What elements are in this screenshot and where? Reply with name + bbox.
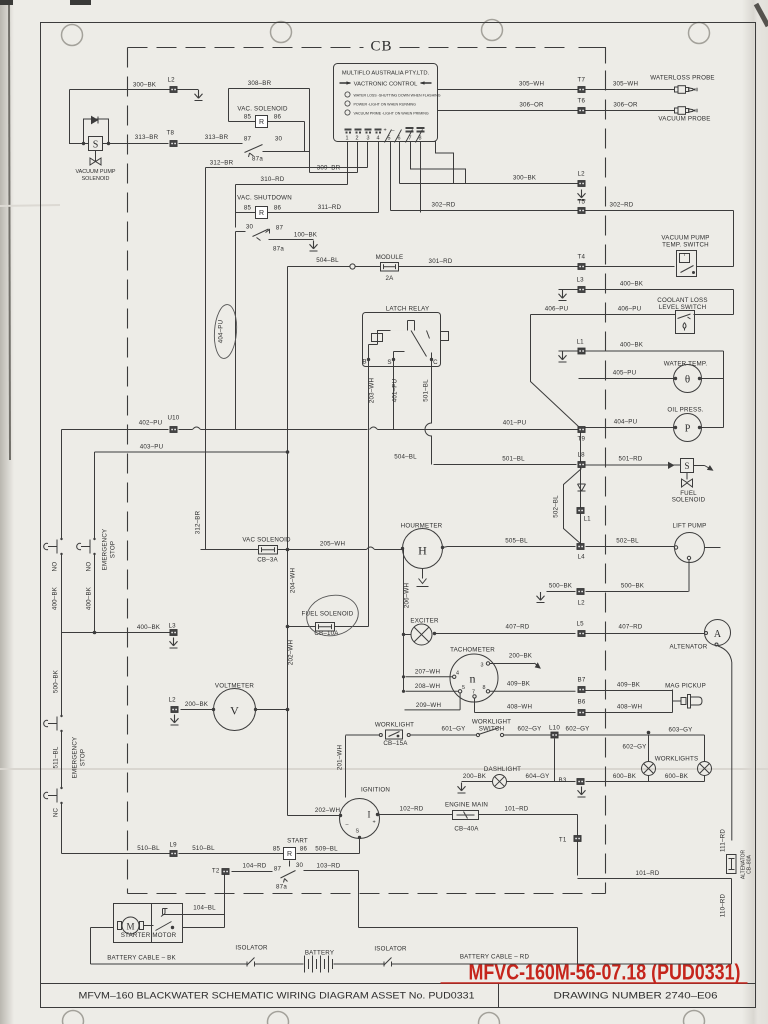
svg-text:1: 1: [346, 136, 349, 142]
svg-text:VACUUM PUMP: VACUUM PUMP: [661, 235, 709, 242]
svg-text:100–BK: 100–BK: [294, 232, 318, 239]
svg-text:T2: T2: [212, 868, 220, 875]
svg-text:EXCITER: EXCITER: [410, 618, 439, 625]
svg-text:206–WH: 206–WH: [404, 583, 411, 608]
svg-text:VOLTMETER: VOLTMETER: [215, 683, 254, 690]
svg-text:CB–80A: CB–80A: [747, 855, 753, 874]
svg-text:205–WH: 205–WH: [320, 541, 345, 548]
svg-text:505–BL: 505–BL: [505, 538, 528, 545]
svg-text:313–BR: 313–BR: [135, 134, 159, 141]
svg-text:WORKLIGHTS: WORKLIGHTS: [655, 756, 699, 763]
svg-text:T5: T5: [578, 199, 586, 206]
svg-text:VAC. SHUTDOWN: VAC. SHUTDOWN: [237, 195, 292, 202]
svg-text:207–WH: 207–WH: [415, 669, 440, 676]
svg-text:407–RD: 407–RD: [506, 624, 530, 631]
svg-text:406–PU: 406–PU: [545, 306, 569, 313]
svg-text:87: 87: [274, 866, 282, 873]
svg-text:86: 86: [274, 205, 282, 212]
svg-text:401–PU: 401–PU: [392, 379, 399, 403]
svg-text:θ: θ: [685, 374, 690, 386]
svg-text:B3: B3: [559, 777, 567, 784]
svg-text:A: A: [714, 629, 722, 640]
svg-text:85: 85: [273, 846, 281, 853]
svg-text:POWER -LIGHT ON WHEN RUNNING: POWER -LIGHT ON WHEN RUNNING: [354, 103, 417, 107]
svg-text:306–OR: 306–OR: [613, 102, 638, 109]
svg-text:S: S: [684, 461, 689, 471]
svg-text:L3: L3: [169, 623, 177, 630]
svg-text:L1: L1: [584, 516, 592, 523]
svg-text:TEMP. SWITCH: TEMP. SWITCH: [662, 242, 709, 249]
svg-text:600–BK: 600–BK: [613, 773, 637, 780]
svg-text:401–PU: 401–PU: [503, 420, 527, 427]
svg-text:ISOLATOR: ISOLATOR: [374, 946, 407, 953]
svg-text:CB–3A: CB–3A: [257, 557, 278, 564]
svg-text:C: C: [433, 359, 438, 366]
svg-text:407–RD: 407–RD: [619, 624, 643, 631]
svg-text:3: 3: [481, 663, 484, 669]
svg-text:+: +: [384, 128, 387, 134]
svg-text:500–BK: 500–BK: [53, 669, 60, 693]
svg-text:STOP: STOP: [80, 749, 87, 767]
svg-text:102–RD: 102–RD: [400, 806, 424, 813]
svg-text:501–RD: 501–RD: [619, 456, 643, 463]
svg-text:405–PU: 405–PU: [613, 370, 637, 377]
svg-text:I: I: [368, 810, 371, 820]
svg-text:308–BR: 308–BR: [248, 80, 272, 87]
svg-text:204–WH: 204–WH: [290, 568, 297, 593]
svg-text:MAG PICKUP: MAG PICKUP: [665, 683, 706, 690]
svg-text:305–WH: 305–WH: [613, 81, 638, 88]
svg-text:500–BK: 500–BK: [621, 583, 645, 590]
svg-text:P: P: [685, 424, 691, 435]
svg-text:VACUUM PRIME -LIGHT ON WHEN PR: VACUUM PRIME -LIGHT ON WHEN PRIMING: [354, 112, 429, 116]
svg-text:LIFT PUMP: LIFT PUMP: [672, 523, 706, 530]
svg-text:400–BK: 400–BK: [86, 586, 93, 610]
svg-text:500–BK: 500–BK: [549, 583, 573, 590]
svg-text:403–PU: 403–PU: [140, 444, 164, 451]
svg-text:409–BK: 409–BK: [507, 681, 531, 688]
svg-text:509–BL: 509–BL: [315, 846, 338, 853]
svg-text:101–RD: 101–RD: [505, 806, 529, 813]
svg-text:MFVC-160M-56-07.18 (PUD0331): MFVC-160M-56-07.18 (PUD0331): [469, 960, 741, 985]
svg-text:104–RD: 104–RD: [243, 863, 267, 870]
svg-text:T9: T9: [578, 436, 586, 443]
svg-text:ALTENATOR: ALTENATOR: [670, 644, 708, 651]
svg-text:30: 30: [275, 136, 283, 143]
svg-text:209–WH: 209–WH: [416, 702, 441, 709]
svg-text:COOLANT LOSS: COOLANT LOSS: [657, 297, 707, 304]
svg-text:201–WH: 201–WH: [337, 745, 344, 770]
svg-text:L2: L2: [168, 77, 176, 84]
svg-text:408–WH: 408–WH: [617, 704, 642, 711]
svg-text:SOLENOID: SOLENOID: [672, 497, 706, 504]
svg-text:BATTERY CABLE – BK: BATTERY CABLE – BK: [107, 955, 176, 962]
svg-text:501–BL: 501–BL: [423, 379, 430, 402]
svg-text:400–BK: 400–BK: [620, 281, 644, 288]
svg-text:WORKLIGHT: WORKLIGHT: [375, 722, 414, 729]
svg-text:111–RD: 111–RD: [720, 829, 727, 852]
svg-text:30: 30: [296, 862, 304, 869]
svg-text:104–BL: 104–BL: [193, 905, 216, 912]
svg-text:5: 5: [462, 685, 465, 691]
svg-text:312–BR: 312–BR: [210, 160, 234, 167]
svg-text:85: 85: [244, 205, 252, 212]
svg-text:ENGINE MAIN: ENGINE MAIN: [445, 802, 488, 809]
svg-text:311–RD: 311–RD: [318, 204, 342, 211]
svg-text:502–BL: 502–BL: [616, 538, 639, 545]
svg-text:301–RD: 301–RD: [429, 258, 453, 265]
svg-text:313–BR: 313–BR: [205, 134, 229, 141]
svg-text:TACHOMETER: TACHOMETER: [450, 647, 495, 654]
svg-text:85: 85: [244, 114, 252, 121]
svg-text:T6: T6: [578, 98, 586, 105]
svg-text:602–GY: 602–GY: [518, 726, 542, 733]
svg-text:406–PU: 406–PU: [618, 306, 642, 313]
svg-text:–: –: [392, 128, 395, 134]
svg-text:203–WH: 203–WH: [369, 378, 376, 403]
svg-text:H: H: [418, 544, 427, 558]
svg-text:S: S: [387, 359, 391, 366]
svg-text:504–BL: 504–BL: [316, 257, 339, 264]
svg-text:510–BL: 510–BL: [192, 845, 215, 852]
svg-text:409–BK: 409–BK: [617, 682, 641, 689]
svg-text:BATTERY CABLE – RD: BATTERY CABLE – RD: [460, 954, 530, 961]
svg-text:NO: NO: [52, 562, 59, 572]
svg-text:ISOLATOR: ISOLATOR: [235, 945, 268, 952]
svg-text:CB: CB: [371, 39, 393, 55]
svg-text:202–WH: 202–WH: [288, 640, 295, 665]
svg-text:V: V: [230, 704, 239, 718]
svg-text:87: 87: [244, 136, 252, 143]
svg-text:200–BK: 200–BK: [463, 773, 487, 780]
svg-text:M: M: [126, 922, 134, 932]
svg-text:LEVEL SWITCH: LEVEL SWITCH: [659, 304, 707, 311]
svg-text:IGNITION: IGNITION: [361, 787, 390, 794]
svg-text:T1: T1: [559, 837, 567, 844]
svg-text:400–BK: 400–BK: [52, 586, 59, 610]
svg-text:T4: T4: [578, 254, 586, 261]
svg-text:VAC. SOLENOID: VAC. SOLENOID: [237, 106, 288, 113]
svg-text:310–RD: 310–RD: [261, 176, 285, 183]
svg-text:510–BL: 510–BL: [137, 845, 160, 852]
svg-text:408–WH: 408–WH: [507, 704, 532, 711]
svg-text:L10: L10: [549, 725, 560, 732]
svg-text:L4: L4: [578, 554, 586, 561]
svg-text:–: –: [346, 822, 349, 828]
svg-text:STARTER MOTOR: STARTER MOTOR: [121, 932, 177, 939]
svg-text:L3: L3: [577, 277, 585, 284]
svg-text:LATCH RELAY: LATCH RELAY: [386, 306, 430, 313]
svg-text:T8: T8: [167, 130, 175, 137]
svg-text:WATERLOSS PROBE: WATERLOSS PROBE: [650, 75, 715, 82]
svg-text:208–WH: 208–WH: [415, 683, 440, 690]
svg-text:VACUUM PUMP: VACUUM PUMP: [75, 169, 115, 175]
svg-text:302–RD: 302–RD: [432, 202, 456, 209]
svg-text:86: 86: [274, 114, 282, 121]
svg-text:VACTRONIC CONTROL: VACTRONIC CONTROL: [354, 82, 418, 88]
svg-text:86: 86: [300, 846, 308, 853]
svg-text:4: 4: [377, 136, 380, 142]
svg-text:SOLENOID: SOLENOID: [82, 176, 110, 182]
svg-text:8: 8: [483, 685, 486, 691]
svg-text:87a: 87a: [276, 884, 287, 891]
svg-text:87a: 87a: [273, 246, 284, 253]
svg-text:CB–15A: CB–15A: [383, 740, 408, 747]
svg-text:404–PU: 404–PU: [614, 419, 638, 426]
svg-text:B6: B6: [578, 699, 586, 706]
svg-text:CB–40A: CB–40A: [454, 826, 479, 833]
svg-text:3: 3: [367, 136, 370, 142]
svg-text:WORKLIGHT: WORKLIGHT: [472, 719, 511, 726]
svg-text:NO: NO: [86, 562, 93, 572]
svg-text:402–PU: 402–PU: [139, 420, 163, 427]
svg-text:FUEL SOLENOID: FUEL SOLENOID: [302, 611, 354, 618]
svg-text:START: START: [287, 838, 308, 845]
svg-text:STOP: STOP: [110, 541, 117, 559]
svg-text:602–GY: 602–GY: [566, 726, 590, 733]
svg-text:200–BK: 200–BK: [509, 653, 533, 660]
svg-text:511–BL: 511–BL: [53, 746, 60, 768]
svg-text:L2: L2: [578, 171, 586, 178]
svg-text:400–BK: 400–BK: [137, 624, 161, 631]
svg-text:B7: B7: [578, 677, 586, 684]
svg-text:L8: L8: [578, 452, 586, 459]
svg-text:602–GY: 602–GY: [623, 744, 647, 751]
svg-text:VAC SOLENOID: VAC SOLENOID: [242, 537, 291, 544]
svg-text:DASHLIGHT: DASHLIGHT: [484, 766, 521, 773]
svg-text:NC: NC: [53, 808, 60, 818]
svg-text:DRAWING NUMBER 2740–E06: DRAWING NUMBER 2740–E06: [554, 991, 718, 1001]
svg-text:501–BL: 501–BL: [502, 456, 525, 463]
svg-text:MODULE: MODULE: [376, 254, 404, 261]
svg-text:L9: L9: [170, 842, 178, 849]
svg-text:4: 4: [456, 671, 459, 677]
svg-text:110–RD: 110–RD: [720, 893, 727, 917]
svg-text:305–WH: 305–WH: [519, 81, 544, 88]
svg-text:306–OR: 306–OR: [519, 102, 544, 109]
svg-text:BATTERY: BATTERY: [305, 950, 334, 957]
svg-text:T7: T7: [578, 77, 586, 84]
svg-text:EMERGENCY: EMERGENCY: [72, 737, 79, 779]
svg-text:2: 2: [356, 136, 359, 142]
svg-text:30: 30: [246, 224, 254, 231]
svg-text:2A: 2A: [386, 275, 395, 282]
svg-text:VACUUM PROBE: VACUUM PROBE: [658, 116, 710, 123]
svg-text:T: T: [683, 252, 686, 257]
svg-text:SWITCH: SWITCH: [479, 726, 505, 733]
svg-text:309–BR: 309–BR: [317, 165, 341, 172]
svg-text:L1: L1: [577, 339, 585, 346]
svg-text:504–BL: 504–BL: [394, 454, 417, 461]
svg-text:400–BK: 400–BK: [620, 342, 644, 349]
svg-text:L5: L5: [577, 621, 585, 628]
svg-text:312–BR: 312–BR: [195, 510, 202, 534]
svg-text:L2: L2: [578, 600, 586, 607]
svg-text:202–WH: 202–WH: [315, 807, 340, 814]
svg-text:200–BK: 200–BK: [185, 701, 209, 708]
svg-text:WATER LOSS -SHUTTING DOWN WHEN: WATER LOSS -SHUTTING DOWN WHEN FLASHING: [354, 94, 441, 98]
svg-text:S: S: [356, 829, 360, 835]
svg-text:L2: L2: [169, 697, 177, 704]
svg-text:OIL PRESS.: OIL PRESS.: [667, 407, 703, 414]
svg-text:87: 87: [276, 225, 284, 232]
svg-text:HOURMETER: HOURMETER: [401, 523, 443, 530]
svg-text:300–BK: 300–BK: [513, 175, 537, 182]
svg-text:101–RD: 101–RD: [636, 870, 660, 877]
svg-text:604–GY: 604–GY: [526, 773, 550, 780]
svg-text:600–BK: 600–BK: [665, 773, 689, 780]
svg-text:502–BL: 502–BL: [553, 495, 560, 518]
svg-text:87a: 87a: [252, 156, 263, 163]
svg-text:603–GY: 603–GY: [669, 727, 693, 734]
svg-text:302–RD: 302–RD: [610, 202, 634, 209]
svg-text:404–PU: 404–PU: [218, 320, 225, 344]
svg-text:EMERGENCY: EMERGENCY: [102, 529, 109, 571]
svg-text:n: n: [470, 672, 476, 686]
svg-text:B: B: [362, 359, 366, 366]
svg-text:601–GY: 601–GY: [442, 726, 466, 733]
svg-text:MULTIFLO AUSTRALIA PTY.LTD.: MULTIFLO AUSTRALIA PTY.LTD.: [342, 71, 430, 77]
svg-text:103–RD: 103–RD: [317, 863, 341, 870]
svg-text:7: 7: [472, 690, 475, 696]
svg-text:300–BK: 300–BK: [133, 82, 157, 89]
svg-text:MFVM–160 BLACKWATER SCHEMATI: MFVM–160 BLACKWATER SCHEMATIC WIRING DIA…: [79, 991, 475, 1001]
svg-text:+: +: [373, 820, 376, 826]
svg-text:S: S: [93, 140, 99, 151]
svg-text:U10: U10: [168, 415, 180, 422]
svg-text:WATER TEMP.: WATER TEMP.: [664, 361, 708, 368]
